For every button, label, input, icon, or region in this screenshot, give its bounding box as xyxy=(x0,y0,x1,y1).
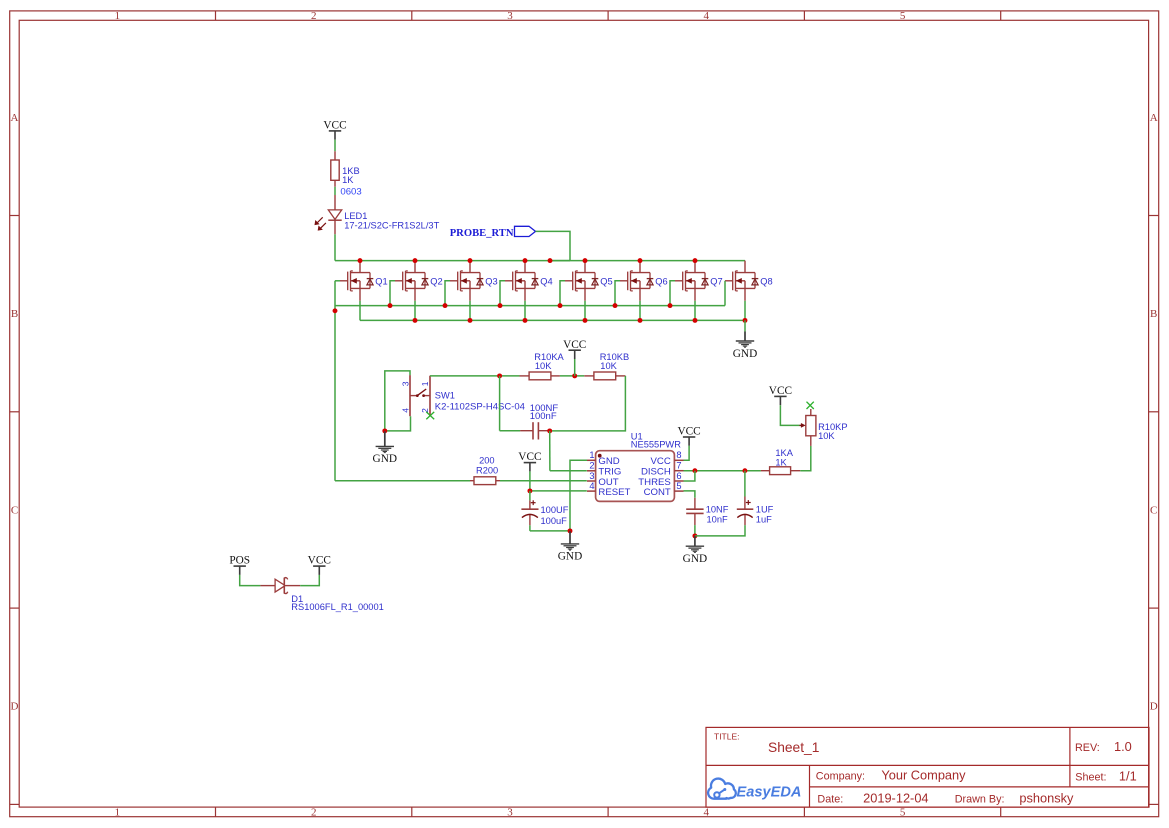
svg-text:Q3: Q3 xyxy=(485,276,497,286)
wire Q4 source to source rail xyxy=(524,301,526,321)
svg-text:4: 4 xyxy=(704,806,710,818)
wire THRES jog up to DISCH xyxy=(684,471,695,481)
wire R10KA to R10KB xyxy=(560,375,584,377)
wire Q8 source to source rail xyxy=(744,301,746,321)
junction node SW1/R10KA/cap xyxy=(497,373,502,378)
wire Q7 gate drop xyxy=(670,281,675,306)
resistor 1KB pins xyxy=(334,151,336,160)
junction gate rail x=670 xyxy=(668,303,673,308)
switch SW1 K2-1102SP-H4SC-04 xyxy=(410,375,430,416)
svg-text:5: 5 xyxy=(900,806,906,818)
junction 10NF GND xyxy=(692,533,697,538)
svg-text:100UF: 100UF xyxy=(541,505,569,515)
wire SW1 pin3 to GND loop xyxy=(385,371,410,431)
U1 pin1 marker dot xyxy=(598,454,602,458)
power flag VCC (RESET) xyxy=(518,451,541,471)
capacitor 10NF 10nF xyxy=(686,509,703,513)
junction drain rail x=470 xyxy=(468,258,473,263)
svg-text:7: 7 xyxy=(676,461,681,471)
wire SW1 pin1 to R10KA xyxy=(430,375,520,377)
potentiometer R10KP 10K xyxy=(800,409,816,446)
svg-text:TITLE:: TITLE: xyxy=(714,732,740,742)
junction source rail x=640 xyxy=(638,318,643,323)
wire U1 pin1 to GND xyxy=(570,460,587,531)
wire R200 to U1 pin3 OUT xyxy=(500,480,587,482)
svg-text:200: 200 xyxy=(479,456,495,466)
svg-text:Q8: Q8 xyxy=(760,276,772,286)
wire gate rail xyxy=(335,305,725,307)
svg-text:Q5: Q5 xyxy=(600,276,612,286)
power flag VCC (R10KP wiper) xyxy=(769,385,792,405)
resistor R200 200 xyxy=(474,477,496,485)
junction gate rail x=560 xyxy=(558,303,563,308)
op-amp/timer U1 NE555PWR body xyxy=(596,451,675,502)
svg-text:1: 1 xyxy=(420,381,430,386)
wire VCC to junction xyxy=(574,359,576,376)
junction drain rail x=360 xyxy=(358,258,363,263)
U1 pin 7 DISCH xyxy=(674,470,683,472)
junction OUT vertical xyxy=(333,308,338,313)
wire GND node to 1UF xyxy=(695,525,745,536)
svg-text:10K: 10K xyxy=(818,431,835,441)
junction gate rail x=500 xyxy=(498,303,503,308)
junction DISCH/1UF xyxy=(742,468,747,473)
svg-text:C: C xyxy=(1150,504,1157,516)
svg-text:1K: 1K xyxy=(342,175,354,185)
power flag POS xyxy=(229,555,250,575)
wire 100UF to GND node xyxy=(530,530,570,532)
ground (10NF/1UF) xyxy=(683,536,707,565)
svg-text:GND: GND xyxy=(598,456,619,467)
LED LED1 xyxy=(315,195,342,234)
wire R 1KB to LED1 xyxy=(334,187,336,195)
svg-text:B: B xyxy=(11,308,18,320)
transistor Q1 xyxy=(340,261,373,301)
svg-text:A: A xyxy=(1150,112,1158,124)
wire Q2 source to source rail xyxy=(414,301,416,321)
wire Q2 gate drop xyxy=(390,281,395,306)
wire Q4 gate drop xyxy=(500,281,505,306)
svg-text:D: D xyxy=(1150,701,1158,713)
svg-text:VCC: VCC xyxy=(563,339,586,351)
wire junction down to 100NF xyxy=(499,376,501,431)
junction drain rail x=695 xyxy=(693,258,698,263)
U1 pin 3 OUT xyxy=(587,480,596,482)
transistor Q4 xyxy=(505,261,538,301)
transistor Q2 xyxy=(395,261,428,301)
U1 pin 4 RESET xyxy=(587,490,596,492)
svg-text:Q4: Q4 xyxy=(540,276,552,286)
svg-text:1: 1 xyxy=(115,806,121,818)
junction drain rail x=550 xyxy=(548,258,553,263)
wire POS to D1 anode xyxy=(240,575,261,586)
svg-text:PROBE_RTN: PROBE_RTN xyxy=(450,228,514,239)
svg-text:3: 3 xyxy=(589,471,594,481)
svg-text:Your Company: Your Company xyxy=(881,767,966,782)
svg-text:GND: GND xyxy=(558,551,582,563)
svg-text:8: 8 xyxy=(676,450,681,460)
svg-text:Sheet_1: Sheet_1 xyxy=(768,740,819,755)
svg-text:Q1: Q1 xyxy=(375,276,387,286)
wire Q3 gate drop xyxy=(445,281,450,306)
wire RESET node to 100UF xyxy=(529,491,531,501)
wire Q6 source to source rail xyxy=(639,301,641,321)
svg-text:VCC: VCC xyxy=(769,385,792,397)
svg-text:VCC: VCC xyxy=(308,555,331,567)
svg-text:NE555PWR: NE555PWR xyxy=(631,440,681,450)
svg-text:2: 2 xyxy=(589,461,594,471)
svg-text:Sheet:: Sheet: xyxy=(1075,771,1106,783)
svg-text:2019-12-04: 2019-12-04 xyxy=(863,790,928,805)
svg-text:GND: GND xyxy=(733,348,757,360)
wire Q1 gate xyxy=(335,280,340,282)
U1 pin 8 VCC xyxy=(674,459,683,461)
svg-text:1K: 1K xyxy=(775,458,787,468)
junction gate rail x=615 xyxy=(613,303,618,308)
wire OUT to R200 xyxy=(335,480,470,482)
wire VCC down to RESET node xyxy=(529,471,531,491)
power flag VCC (top, LED branch) xyxy=(323,120,346,140)
svg-text:GND: GND xyxy=(683,553,707,565)
wire Q6 gate drop xyxy=(615,281,620,306)
svg-text:VCC: VCC xyxy=(651,456,671,467)
wire 1KA to R10KP xyxy=(800,446,811,471)
transistor Q5 xyxy=(565,261,598,301)
power flag VCC (U1 pin8) xyxy=(677,426,700,446)
svg-text:1/1: 1/1 xyxy=(1119,768,1137,783)
wire DISCH to 1UF xyxy=(744,471,746,497)
svg-text:RS1006FL_R1_00001: RS1006FL_R1_00001 xyxy=(291,602,384,612)
EasyEDA logo xyxy=(708,779,801,801)
wire Q7 source to source rail xyxy=(694,301,696,321)
wire Q3 source to source rail xyxy=(469,301,471,321)
resistor R10KB leads xyxy=(584,375,594,377)
resistor 1KA 1K xyxy=(770,467,791,475)
svg-text:3: 3 xyxy=(507,806,513,818)
svg-text:R200: R200 xyxy=(476,465,498,475)
junction source rail x=745 xyxy=(743,318,748,323)
svg-text:4: 4 xyxy=(400,408,410,413)
wire CONT to 10NF xyxy=(684,491,695,498)
wire 100UF to GND wire xyxy=(529,525,531,531)
junction gate rail x=445 xyxy=(443,303,448,308)
svg-text:1KA: 1KA xyxy=(775,448,793,458)
svg-text:pshonsky: pshonsky xyxy=(1019,790,1074,805)
transistor Q8 xyxy=(725,261,758,301)
ground (SW1) xyxy=(373,431,397,465)
junction GND node xyxy=(568,528,573,533)
ground (transistor sources) xyxy=(733,332,757,360)
power flag VCC (D1) xyxy=(308,555,331,575)
U1 pin 5 CONT xyxy=(674,490,683,492)
U1 pin 2 TRIG xyxy=(587,470,596,472)
svg-text:Drawn By:: Drawn By: xyxy=(955,793,1005,805)
wire VCC to R 1KB xyxy=(334,140,336,152)
diode D1 xyxy=(275,578,288,594)
title block xyxy=(706,727,1149,807)
wire drain rail xyxy=(335,260,745,262)
junction source rail x=415 xyxy=(413,318,418,323)
svg-text:1.0: 1.0 xyxy=(1114,739,1132,754)
svg-text:VCC: VCC xyxy=(323,120,346,132)
junction gate rail x=390 xyxy=(388,303,393,308)
svg-text:GND: GND xyxy=(373,453,397,465)
capacitor 100NF 100nF xyxy=(533,422,538,439)
wire SW1 pin4 to GND loop xyxy=(385,416,411,431)
svg-text:3: 3 xyxy=(507,10,513,22)
capacitor 10NF leads xyxy=(694,498,696,509)
wire VCC to R10KP wiper xyxy=(780,405,799,425)
svg-text:2: 2 xyxy=(311,806,317,818)
svg-text:0603: 0603 xyxy=(340,187,361,198)
svg-text:Company:: Company: xyxy=(816,770,865,782)
svg-text:1UF: 1UF xyxy=(756,504,774,514)
junction drain rail x=415 xyxy=(413,258,418,263)
svg-text:2: 2 xyxy=(311,10,317,22)
svg-text:1: 1 xyxy=(589,450,594,460)
svg-text:CONT: CONT xyxy=(644,487,671,498)
svg-text:EasyEDA: EasyEDA xyxy=(737,784,802,800)
svg-text:A: A xyxy=(11,112,19,124)
svg-text:REV:: REV: xyxy=(1075,742,1100,754)
transistor Q3 xyxy=(450,261,483,301)
svg-text:2: 2 xyxy=(420,408,430,413)
svg-text:5: 5 xyxy=(900,10,906,22)
svg-text:5: 5 xyxy=(676,481,681,491)
wire D1 cathode to VCC xyxy=(300,575,319,586)
svg-text:C: C xyxy=(11,504,18,516)
svg-text:Q7: Q7 xyxy=(710,276,722,286)
resistor R10KB 10K xyxy=(594,372,616,380)
no-connect X on SW1 pin 2 xyxy=(426,412,434,419)
resistor 1KB 1K 0603 xyxy=(331,160,339,180)
wire Q1 source to source rail xyxy=(359,301,361,321)
wire 100NF node down to TRIG xyxy=(549,431,551,471)
junction 100NF/TRIG xyxy=(547,428,552,433)
junction drain rail x=525 xyxy=(523,258,528,263)
wire 10NF to GND node xyxy=(694,525,696,536)
svg-text:10NF: 10NF xyxy=(706,504,729,514)
svg-text:B: B xyxy=(1150,308,1157,320)
wire Q5 source to source rail xyxy=(584,301,586,321)
svg-text:10K: 10K xyxy=(600,361,617,371)
svg-text:VCC: VCC xyxy=(518,451,541,463)
junction DISCH/THRES node xyxy=(692,468,697,473)
transistor Q7 xyxy=(675,261,708,301)
svg-text:4: 4 xyxy=(704,10,710,22)
wire source rail xyxy=(360,319,745,321)
wire VCC to U1 pin8 xyxy=(684,446,690,461)
junction source rail x=585 xyxy=(583,318,588,323)
capacitor 100NF leads xyxy=(520,430,533,432)
SW1 pin numbers xyxy=(400,381,430,413)
transistor Q6 xyxy=(620,261,653,301)
junction VCC/R10KA/R10KB xyxy=(572,373,577,378)
wire to U1 pin4 RESET xyxy=(530,490,587,492)
svg-text:4: 4 xyxy=(589,481,594,491)
svg-text:Q2: Q2 xyxy=(430,276,442,286)
U1 pin 1 GND xyxy=(587,459,596,461)
resistor 1KA leads xyxy=(761,470,770,472)
diode D1 RS1006FL leads xyxy=(260,585,275,587)
wire Q8 gate drop xyxy=(724,281,726,306)
junction SW1 GND xyxy=(382,428,387,433)
net port PROBE_RTN xyxy=(450,226,536,239)
svg-text:100nF: 100nF xyxy=(530,411,557,422)
svg-text:RESET: RESET xyxy=(598,487,630,498)
wire LED1 cathode to drain rail xyxy=(334,234,336,260)
wire DISCH net xyxy=(684,470,761,472)
svg-text:10K: 10K xyxy=(535,361,552,371)
svg-text:100uF: 100uF xyxy=(541,516,568,526)
wire OUT net vertical (gates) xyxy=(334,281,336,481)
wire to 100NF left xyxy=(500,430,520,432)
junction drain rail x=585 xyxy=(583,258,588,263)
capacitor 1UF 1uF (polarized) xyxy=(737,500,754,517)
svg-text:K2-1102SP-H4SC-04: K2-1102SP-H4SC-04 xyxy=(435,402,525,413)
junction source rail x=695 xyxy=(693,318,698,323)
no-connect X on R10KP pin 1 xyxy=(807,402,814,409)
svg-text:Date:: Date: xyxy=(817,793,843,805)
ground (U1/100UF) xyxy=(558,531,582,563)
svg-text:3: 3 xyxy=(400,381,410,386)
svg-text:1uF: 1uF xyxy=(756,515,772,525)
U1 pin 6 THRES xyxy=(674,480,683,482)
wire Q8 source to GND xyxy=(744,320,746,331)
power flag VCC (R10K divider) xyxy=(563,339,586,359)
svg-text:SW1: SW1 xyxy=(435,391,455,401)
svg-text:1: 1 xyxy=(115,10,121,22)
junction RESET/100UF xyxy=(527,488,532,493)
svg-text:Q6: Q6 xyxy=(655,276,667,286)
resistor R200 leads xyxy=(470,480,474,482)
capacitor 100UF 100uF (polarized) xyxy=(521,500,538,517)
svg-text:10nF: 10nF xyxy=(707,515,729,525)
junction drain rail x=640 xyxy=(638,258,643,263)
junction source rail x=525 xyxy=(523,318,528,323)
wire Q5 gate drop xyxy=(560,281,565,306)
wire PROBE_RTN to drain rail xyxy=(536,231,571,260)
svg-text:POS: POS xyxy=(229,555,250,567)
svg-text:VCC: VCC xyxy=(677,426,700,438)
wire overlap segment xyxy=(550,260,570,262)
resistor R10KA leads xyxy=(520,375,530,377)
resistor R10KA 10K xyxy=(529,372,551,380)
svg-text:17-21/S2C-FR1S2L/3T: 17-21/S2C-FR1S2L/3T xyxy=(344,220,439,230)
wire R10KB down to 100NF node xyxy=(550,376,626,431)
svg-text:6: 6 xyxy=(676,471,681,481)
svg-text:D: D xyxy=(11,701,19,713)
wire to TRIG pin xyxy=(550,470,587,472)
junction source rail x=470 xyxy=(468,318,473,323)
